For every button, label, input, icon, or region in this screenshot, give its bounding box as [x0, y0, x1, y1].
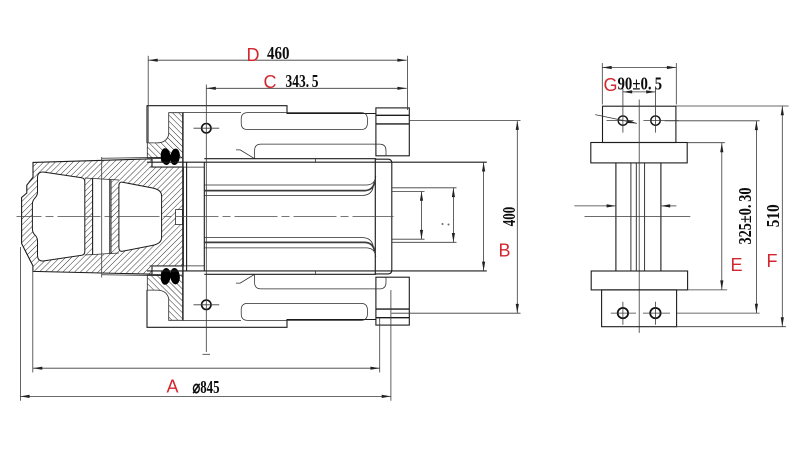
- top-right block inner lines: [376, 115, 409, 124]
- svg-text:C: C: [264, 72, 277, 92]
- top block: [603, 106, 676, 142]
- tread second line bottom: [102, 274, 162, 277]
- svg-text:343. 5: 343. 5: [286, 71, 319, 91]
- top block hole 2: [651, 116, 660, 125]
- hub keyway plug: [176, 210, 183, 225]
- bottom block hole 1: [618, 308, 628, 318]
- top-right block U1: [376, 108, 409, 156]
- top bracket chamfer: [236, 150, 255, 159]
- svg-text:F: F: [767, 251, 778, 271]
- rim band boundary across rib top: [85, 178, 119, 180]
- top bracket bottom edge: [204, 158, 376, 160]
- gap line over bottom foot: [150, 265, 205, 267]
- top block hole 1: [618, 116, 627, 125]
- top bracket outline: [147, 106, 376, 143]
- tread second line top: [102, 156, 162, 159]
- axle upper surface lines: [204, 176, 375, 185]
- top width dim: [602, 67, 676, 69]
- view centerline horizontal: [585, 216, 691, 218]
- axle lower surface lines: [204, 248, 375, 257]
- bottom block: [602, 290, 677, 327]
- bottom bracket chamfer: [236, 274, 255, 283]
- svg-text:B: B: [499, 241, 511, 261]
- joint tick bottom: [315, 271, 317, 274]
- bottom bracket top edge: [204, 273, 376, 275]
- bottom bracket foot and column (hatched): [147, 275, 182, 320]
- tread stub under seal bottom: [152, 271, 161, 276]
- wheel vertical centerline: [101, 157, 103, 278]
- wheel left cavity: [32, 172, 84, 261]
- shaft outer lines: [616, 163, 661, 271]
- bottom hole crosshairs: [611, 302, 670, 325]
- axle end dim 2: [452, 188, 454, 243]
- svg-text:400: 400: [499, 207, 519, 227]
- collar inner edge: [374, 159, 376, 274]
- leader diagonal: [595, 115, 637, 124]
- bottom bracket outline: [147, 290, 376, 327]
- bottom-right block: [376, 277, 409, 325]
- top bracket recess (rounded slot): [241, 113, 367, 130]
- bracket bolt centerline: [205, 85, 207, 353]
- wheel right cavity: [119, 182, 162, 251]
- axle bottom edge / extension: [147, 270, 487, 272]
- svg-text:A: A: [167, 377, 179, 397]
- bottom bracket inner step line: [183, 320, 241, 322]
- tread stub under seal top: [152, 157, 161, 162]
- svg-text:⌀845: ⌀845: [193, 377, 220, 397]
- top bracket bolt hole: [202, 124, 211, 133]
- dim G 90±0.5 hole spacing: [623, 91, 656, 93]
- top bracket foot and column (hatched): [147, 113, 182, 158]
- gap line under top foot: [150, 166, 205, 168]
- axle end dim 3: [483, 162, 485, 271]
- wheel rim hatched body: [22, 159, 184, 274]
- axle top edge / extension: [147, 161, 487, 163]
- top bracket inner step line: [183, 111, 241, 113]
- svg-text:G: G: [604, 75, 618, 95]
- dim F 510: [781, 106, 783, 327]
- top seal pair (black): [160, 148, 181, 166]
- dim C 343.5: [207, 87, 407, 89]
- small dots: [442, 223, 444, 225]
- hub right edge: [182, 113, 184, 321]
- svg-text:D: D: [247, 45, 260, 65]
- dim E 325±0.30: [755, 121, 757, 313]
- bottom bracket recess (rounded slot): [241, 303, 367, 320]
- svg-text:325±0. 30: 325±0. 30: [735, 188, 755, 245]
- joint tick top: [315, 159, 317, 163]
- svg-text:510: 510: [763, 204, 783, 227]
- centerline horizontal: [17, 216, 394, 218]
- dim D 460: [148, 59, 406, 61]
- inner bottom dim: [33, 367, 380, 369]
- bottom seal pair (black): [160, 267, 181, 285]
- top flange: [591, 143, 687, 163]
- bottom bracket bolt hole: [202, 300, 211, 309]
- bottom bracket upper recess: [255, 274, 386, 289]
- bottom block hole 2: [650, 308, 660, 318]
- axle shoulder verticals: [187, 162, 205, 271]
- axle end dim 1: [421, 192, 423, 240]
- svg-text:E: E: [731, 255, 743, 275]
- flange spacing dim: [721, 143, 723, 290]
- svg-text:90±0. 5: 90±0. 5: [618, 73, 663, 93]
- shaft diameter arrows: [574, 205, 616, 207]
- rim band boundary across rib bottom: [85, 253, 119, 255]
- bottom flange: [591, 271, 687, 290]
- dim A 845: [20, 395, 391, 397]
- hole crosshairs: [607, 89, 679, 133]
- axle end dim extensions: [392, 188, 457, 243]
- top bracket lower recess: [255, 144, 386, 159]
- wheel center rib (white): [93, 178, 111, 254]
- dim B 400: [516, 121, 518, 314]
- svg-text:460: 460: [267, 43, 290, 63]
- bottom-right block inner lines: [376, 309, 409, 318]
- rib edge lines: [92, 178, 94, 254]
- shaft inner lines: [631, 163, 645, 271]
- axle end collar: [375, 159, 392, 274]
- vertical centerline: [638, 100, 640, 333]
